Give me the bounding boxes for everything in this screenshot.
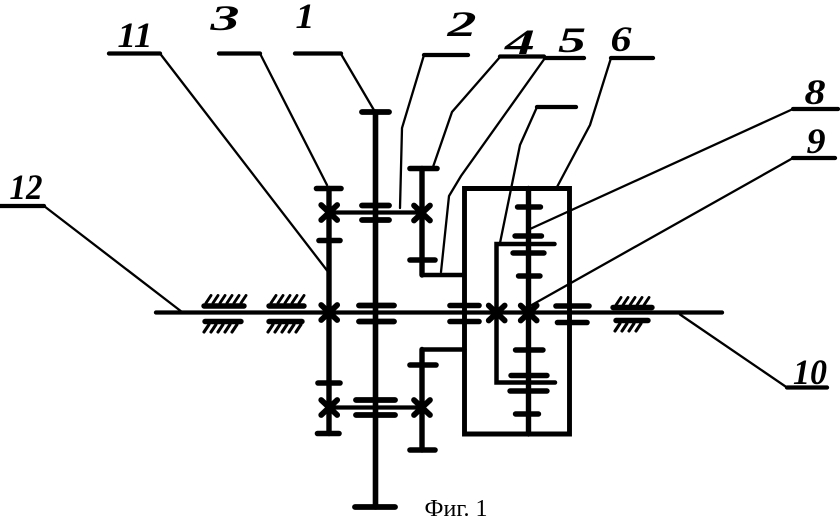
gear bar shaft11 bottom end [318, 431, 340, 437]
leader 12 [44, 206, 182, 312]
gear bar shaft11 upper small [319, 238, 340, 244]
clutch cross at shaft11 upper [321, 205, 337, 220]
leader 1 [341, 54, 375, 111]
label 2 [424, 4, 477, 55]
leader 10 [680, 315, 787, 388]
mesh link upper [329, 210, 422, 214]
shaft 8 inner vertical [526, 189, 531, 435]
gear bar lower right bottom end [410, 447, 435, 453]
label 7 underline [537, 105, 576, 109]
gear bar shaft2 small [410, 257, 435, 263]
shaft 2 upper right vertical [419, 169, 424, 276]
sleeve link lower L [422, 347, 465, 352]
leader 5 [441, 58, 545, 272]
svg-text:6: 6 [611, 19, 632, 59]
gear bar shaft1 top end [362, 109, 389, 115]
clutch cross at shaft11 axis [321, 305, 337, 320]
clutch cross at shaft2 [414, 206, 430, 221]
label 11 [109, 15, 160, 55]
clutch cross at lower right shaft [414, 400, 430, 415]
label 12 [0, 167, 44, 207]
leader 11 [160, 54, 329, 274]
label 4 [500, 22, 544, 62]
gear bar housing left wall axis bottom [450, 319, 479, 325]
gear bar shaft8 wide g [510, 388, 547, 393]
leader 6 [557, 58, 611, 187]
gear bar housing right wall axis bottom [558, 320, 588, 326]
bearing right bottom [615, 321, 648, 332]
housing frame 6 [465, 189, 570, 435]
bearing left pair 2 top [269, 296, 304, 307]
label 9 [793, 121, 835, 161]
svg-text:9: 9 [807, 121, 826, 161]
label 3 [209, 0, 260, 54]
sleeve link upper L [422, 273, 465, 278]
shaft 11 left vertical [326, 189, 331, 434]
gear bar shaft8 small d [519, 273, 541, 278]
svg-text:Фиг. 1: Фиг. 1 [425, 496, 488, 522]
gear bar housing right wall axis top [556, 303, 589, 309]
gear bar shaft8 wide f [511, 373, 547, 378]
clutch cross at shaft8 axis [521, 306, 537, 321]
clutch cross at carrier axis [489, 306, 505, 321]
label 10 [787, 352, 827, 392]
gear bar shaft8 small a [518, 204, 541, 209]
svg-text:1: 1 [296, 0, 315, 36]
shaft lower right vertical [419, 350, 424, 451]
mesh link lower [329, 405, 422, 409]
leader 9 [530, 158, 793, 306]
bearing right top [613, 298, 652, 308]
gear bar shaft1 upper mesh bottom [362, 217, 389, 223]
svg-text:11: 11 [118, 15, 153, 55]
gear bar shaft11 top end [317, 186, 342, 192]
bearing left pair 1 top [204, 296, 246, 307]
gear bar shaft1 lower mesh top [356, 397, 395, 403]
gear bar shaft8 b [515, 233, 542, 238]
bearing left pair 1 bottom [204, 322, 241, 333]
gear bar shaft8 small h [516, 411, 539, 416]
gear bar shaft1 at axis bottom [359, 319, 394, 325]
label 8 [793, 72, 838, 112]
svg-text:3: 3 [209, 0, 240, 38]
svg-text:5: 5 [558, 20, 586, 60]
gear bar housing left wall axis top [450, 303, 479, 309]
gear bar shaft1 bottom end [355, 504, 395, 510]
leader 7 [500, 107, 537, 243]
gear bar lower right small [410, 362, 436, 368]
label 5 [545, 20, 586, 60]
leader 3 [260, 54, 327, 186]
gear bar shaft11 lower small [318, 380, 340, 386]
gear bar shaft8 small e [516, 347, 544, 352]
bearing left pair 2 bottom [268, 322, 302, 333]
svg-text:8: 8 [805, 72, 826, 112]
leader 4 [433, 57, 500, 167]
leader 2 [400, 55, 424, 208]
gear bar shaft2 top end [410, 166, 437, 172]
gear bar shaft1 at axis top [359, 303, 394, 309]
caption [425, 496, 488, 522]
clutch cross at shaft11 lower [321, 400, 337, 415]
gear bar shaft1 upper mesh top [362, 203, 389, 209]
svg-text:2: 2 [446, 4, 477, 44]
gear bar shaft8 wide c [513, 250, 544, 255]
carrier bracket 5 [497, 244, 556, 383]
label 6 [611, 19, 654, 59]
gear bar shaft1 lower mesh bottom [356, 412, 395, 418]
svg-text:12: 12 [10, 167, 43, 207]
main shaft axis [156, 310, 722, 314]
label 1 [295, 0, 341, 54]
shaft 1 central vertical [373, 112, 379, 507]
leader 8 [530, 109, 793, 229]
